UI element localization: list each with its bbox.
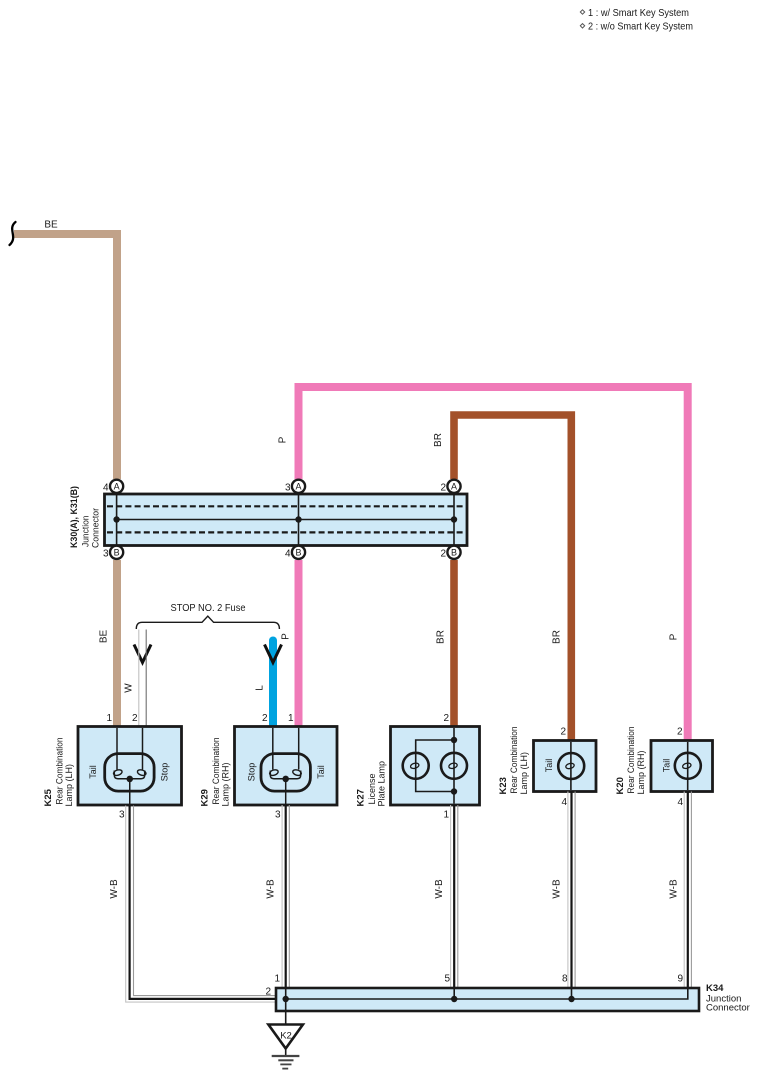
svg-text:2: 2 — [440, 483, 446, 494]
svg-text:Lamp (LH): Lamp (LH) — [64, 764, 74, 807]
svg-text:Rear Combination: Rear Combination — [211, 738, 221, 805]
svg-text:1 : w/ Smart Key System: 1 : w/ Smart Key System — [588, 7, 689, 19]
svg-text:Lamp (RH): Lamp (RH) — [636, 750, 646, 794]
svg-text:A: A — [451, 482, 457, 492]
svg-text:3: 3 — [285, 483, 291, 494]
svg-text:Plate Lamp: Plate Lamp — [377, 761, 387, 807]
svg-text:W-B: W-B — [552, 879, 563, 899]
svg-text:STOP NO. 2 Fuse: STOP NO. 2 Fuse — [171, 602, 246, 614]
svg-text:2: 2 — [132, 713, 138, 724]
svg-text:8: 8 — [562, 974, 568, 985]
svg-text:W: W — [124, 683, 135, 693]
svg-text:P: P — [278, 436, 289, 443]
svg-text:Tail: Tail — [88, 765, 98, 779]
svg-text:Tail: Tail — [662, 759, 672, 773]
svg-text:L: L — [255, 685, 266, 691]
svg-text:Stop: Stop — [160, 763, 170, 782]
svg-text:2 : w/o Smart Key System: 2 : w/o Smart Key System — [588, 21, 693, 33]
svg-text:B: B — [295, 548, 301, 558]
svg-text:Rear Combination: Rear Combination — [509, 727, 519, 794]
svg-text:W-B: W-B — [669, 879, 680, 899]
svg-text:K20: K20 — [615, 777, 626, 794]
svg-text:K25: K25 — [43, 788, 54, 806]
svg-text:Stop: Stop — [247, 763, 257, 782]
svg-text:W-B: W-B — [434, 879, 445, 899]
svg-text:K27: K27 — [356, 789, 367, 806]
svg-text:2: 2 — [440, 549, 446, 560]
svg-text:Rear Combination: Rear Combination — [55, 738, 65, 805]
svg-text:BR: BR — [433, 433, 444, 447]
svg-text:4: 4 — [677, 797, 683, 808]
svg-text:Tail: Tail — [544, 759, 554, 773]
svg-text:B: B — [451, 548, 457, 558]
svg-text:Lamp (LH): Lamp (LH) — [519, 752, 529, 795]
svg-text:BR: BR — [436, 630, 447, 644]
svg-text:3: 3 — [275, 810, 281, 821]
svg-text:P: P — [669, 633, 680, 640]
svg-text:License: License — [367, 773, 377, 804]
svg-text:P: P — [281, 633, 292, 640]
svg-text:2: 2 — [677, 727, 683, 738]
svg-text:1: 1 — [443, 810, 449, 821]
svg-text:BE: BE — [99, 630, 110, 644]
svg-text:9: 9 — [677, 974, 683, 985]
svg-text:5: 5 — [444, 974, 450, 985]
svg-text:W-B: W-B — [109, 879, 120, 899]
svg-text:Connector: Connector — [91, 508, 101, 548]
svg-text:Lamp (RH): Lamp (RH) — [221, 762, 231, 806]
svg-text:Connector: Connector — [706, 1003, 750, 1014]
svg-text:4: 4 — [285, 549, 291, 560]
svg-text:2: 2 — [443, 713, 449, 724]
svg-text:Tail: Tail — [316, 765, 326, 779]
svg-text:3: 3 — [119, 810, 125, 821]
svg-text:2: 2 — [560, 727, 566, 738]
svg-text:Rear Combination: Rear Combination — [626, 727, 636, 794]
svg-text:B: B — [114, 548, 120, 558]
svg-text:2: 2 — [265, 987, 271, 998]
svg-text:K34: K34 — [706, 983, 724, 994]
svg-text:BE: BE — [44, 220, 58, 231]
svg-text:1: 1 — [274, 974, 280, 985]
svg-text:3: 3 — [103, 549, 109, 560]
svg-text:Junction: Junction — [81, 516, 91, 548]
svg-text:K2: K2 — [280, 1031, 292, 1042]
svg-text:K23: K23 — [498, 777, 509, 794]
svg-text:K30(A), K31(B): K30(A), K31(B) — [69, 486, 79, 548]
svg-text:1: 1 — [288, 713, 294, 724]
svg-text:4: 4 — [561, 797, 567, 808]
svg-text:1: 1 — [106, 713, 112, 724]
svg-text:BR: BR — [552, 630, 563, 644]
svg-text:A: A — [295, 482, 301, 492]
svg-text:W-B: W-B — [266, 879, 277, 899]
svg-text:A: A — [114, 482, 120, 492]
svg-text:K29: K29 — [200, 789, 211, 806]
svg-text:4: 4 — [103, 483, 109, 494]
svg-text:2: 2 — [262, 713, 268, 724]
